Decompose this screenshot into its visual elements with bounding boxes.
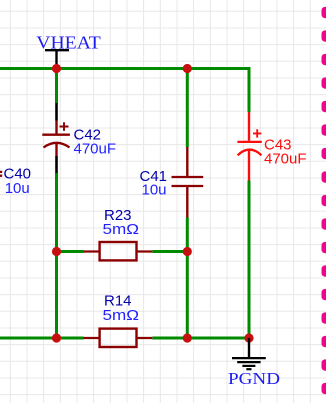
junction dot bottom middle bbox=[183, 333, 192, 342]
wire black segment above C42 bbox=[55, 103, 58, 121]
resistor R14 bbox=[84, 329, 153, 347]
wire middle column upper segment bbox=[186, 69, 189, 148]
wire bottom row left bbox=[0, 337, 84, 340]
svg-text:470uF: 470uF bbox=[74, 141, 117, 158]
wire R23 row left bbox=[57, 250, 84, 253]
wire black segment below C42 bbox=[55, 156, 58, 173]
ground PGND symbol bbox=[232, 338, 266, 369]
junction dot top-left bbox=[52, 64, 61, 73]
svg-text:VHEAT: VHEAT bbox=[36, 33, 101, 53]
junction dot bottom left bbox=[52, 333, 61, 342]
wire left column mid segment bbox=[55, 173, 58, 338]
svg-text:10u: 10u bbox=[5, 180, 30, 197]
junction dot R23 row right bbox=[183, 247, 192, 256]
sheet boundary magenta dashes (right edge) bbox=[322, 7, 326, 394]
wire R23 row right bbox=[152, 250, 187, 253]
svg-text:10u: 10u bbox=[142, 181, 167, 198]
capacitor C40 plate tips (offscreen left) bbox=[0, 172, 2, 176]
capacitor C42 bbox=[42, 121, 70, 157]
junction dot R23 row left bbox=[52, 247, 61, 256]
svg-text:PGND: PGND bbox=[228, 369, 280, 388]
junction dot bottom right bbox=[244, 333, 253, 342]
resistor R23 bbox=[84, 242, 153, 260]
svg-text:5mΩ: 5mΩ bbox=[103, 307, 140, 324]
capacitor C43 (highlighted red) bbox=[237, 112, 261, 181]
junction dot top-middle bbox=[183, 64, 192, 73]
svg-text:5mΩ: 5mΩ bbox=[103, 221, 140, 238]
power port VHEAT bar bbox=[45, 50, 69, 67]
wire bottom row right bbox=[152, 337, 249, 340]
wire right column below C43 bbox=[248, 181, 251, 339]
capacitor C41 bbox=[172, 147, 204, 218]
wire middle column lower segment bbox=[186, 218, 189, 339]
wire left column upper segment bbox=[55, 69, 58, 104]
wire top horizontal VHEAT net bbox=[0, 67, 249, 70]
wire right vertical down to C43 bbox=[248, 67, 251, 112]
svg-text:470uF: 470uF bbox=[264, 151, 307, 168]
